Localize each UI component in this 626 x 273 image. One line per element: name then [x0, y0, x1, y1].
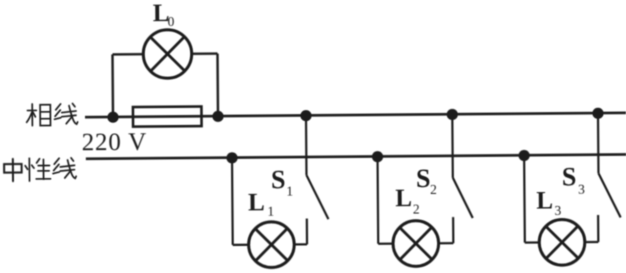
svg-text:3: 3	[578, 182, 585, 197]
svg-text:1: 1	[286, 183, 293, 198]
svg-text:3: 3	[555, 203, 562, 218]
svg-text:S: S	[271, 165, 286, 194]
svg-text:L: L	[536, 187, 553, 214]
svg-text:220 V: 220 V	[82, 129, 148, 157]
svg-text:S: S	[562, 162, 577, 191]
svg-text:L: L	[248, 189, 265, 216]
svg-text:0: 0	[168, 14, 175, 29]
svg-text:2: 2	[413, 201, 420, 216]
svg-text:2: 2	[430, 182, 437, 197]
svg-text:L: L	[395, 185, 412, 212]
svg-text:1: 1	[267, 204, 274, 219]
svg-text:S: S	[416, 164, 431, 193]
